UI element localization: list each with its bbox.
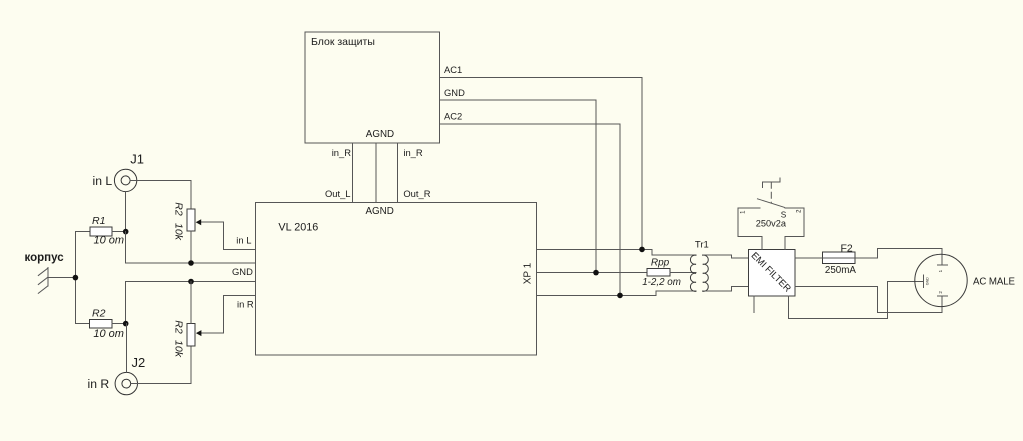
svg-text:J1: J1 <box>130 151 144 166</box>
svg-text:in L: in L <box>93 174 113 188</box>
wire secondary top to EMI <box>703 255 749 258</box>
svg-text:F2: F2 <box>841 242 853 254</box>
AC MALE left pin bar <box>922 275 924 288</box>
svg-text:AC2: AC2 <box>444 111 462 122</box>
switch lever (dashed) <box>757 199 784 208</box>
switch actuator bracket <box>762 178 780 188</box>
potentiometer R2 10k (upper) <box>187 209 195 263</box>
svg-text:GND: GND <box>926 277 930 285</box>
svg-text:2: 2 <box>797 209 803 213</box>
svg-text:1: 1 <box>741 210 747 214</box>
svg-text:10k: 10k <box>173 340 185 358</box>
wire chassis to node <box>48 277 76 279</box>
AC MALE top pin bar <box>937 264 947 266</box>
svg-text:AGND: AGND <box>366 129 394 140</box>
svg-text:250v2a: 250v2a <box>756 218 787 228</box>
wire S pin2 to EMI top <box>784 236 786 249</box>
svg-text:R1: R1 <box>92 215 105 227</box>
wire EMI bottom stub <box>753 296 755 313</box>
switch S box <box>738 208 804 237</box>
wire GND line A (upper) <box>126 232 256 263</box>
svg-text:XP 1: XP 1 <box>523 262 534 284</box>
svg-text:R2: R2 <box>92 307 106 319</box>
EMI FILTER box <box>749 249 795 295</box>
junction R2/J2 node <box>123 321 129 327</box>
svg-text:1: 1 <box>938 269 943 272</box>
svg-text:in_R: in_R <box>332 147 352 158</box>
connector J1 (in L jack) <box>114 169 136 191</box>
potentiometer R2 10k (lower) <box>187 282 195 347</box>
wire F2 to AC MALE top pin <box>855 249 942 265</box>
svg-text:Rpp: Rpp <box>651 258 670 269</box>
connector AC MALE <box>915 254 967 306</box>
svg-text:in R: in R <box>88 377 110 391</box>
wire pot2 wiper to VL in R pin <box>224 295 256 333</box>
wire J2 shield up to R2 node <box>125 324 127 373</box>
resistor R2 <box>75 319 125 328</box>
svg-text:R2: R2 <box>173 202 185 216</box>
svg-text:10 om: 10 om <box>94 234 125 246</box>
wire block pin AGND <box>375 143 377 203</box>
wire GND line B (lower) <box>126 282 256 324</box>
svg-text:GND: GND <box>444 87 465 98</box>
wire GND (protection to XP) <box>440 100 597 273</box>
wiper arrow lower pot <box>196 330 224 336</box>
svg-text:in L: in L <box>236 235 251 246</box>
svg-text:Tr1: Tr1 <box>695 239 709 250</box>
connector J2 (in R jack) <box>115 372 137 394</box>
chassis ground symbol (корпус) <box>38 268 48 294</box>
transformer Tr1 secondary winding <box>703 255 709 291</box>
svg-text:1-2,2 om: 1-2,2 om <box>642 277 681 288</box>
wire J1 center pin to pot R2 top <box>130 180 191 209</box>
wire S pin1 to EMI top <box>761 236 763 249</box>
wire J2 center pin to pot2 bottom <box>131 346 191 383</box>
fuse F2 <box>822 252 855 264</box>
svg-text:Out_R: Out_R <box>403 188 430 199</box>
wire J1 shield down to R1 node <box>125 192 127 232</box>
svg-text:in R: in R <box>237 299 254 310</box>
svg-text:in_R: in_R <box>403 147 423 158</box>
wire AC1 <box>440 77 643 249</box>
wire XP pin1 to transformer top <box>537 249 697 255</box>
svg-text:Блок защиты: Блок защиты <box>311 36 375 48</box>
svg-text:10 om: 10 om <box>93 328 124 340</box>
junction AC2 node <box>617 293 623 299</box>
wire secondary bottom to EMI <box>703 286 749 291</box>
svg-text:VL 2016: VL 2016 <box>278 221 318 233</box>
svg-text:AC MALE: AC MALE <box>973 276 1016 287</box>
svg-text:Out_L: Out_L <box>325 188 351 199</box>
svg-text:корпус: корпус <box>25 252 65 264</box>
wire AC2 <box>440 124 621 296</box>
wire vertical R1-R2 left bus <box>74 232 76 324</box>
wire pot1 wiper to VL in L pin <box>224 222 256 250</box>
wire block pin Out_L <box>351 143 353 203</box>
svg-text:250mA: 250mA <box>825 265 857 276</box>
wire EMI to fuse F2 <box>795 257 823 259</box>
resistor R1 <box>75 227 125 236</box>
block Блок защиты <box>305 32 440 143</box>
junction AC1 node <box>639 247 645 253</box>
wire XP pin3 to transformer bottom <box>537 291 697 295</box>
wire EMI right bottom to AC MALE bottom pin <box>795 286 942 312</box>
switch actuator link (dashed) <box>770 182 772 203</box>
junction chassis node <box>73 275 79 281</box>
junction pot2 top on line B <box>188 279 194 285</box>
resistor Rpp <box>647 269 696 276</box>
junction GND node <box>593 270 599 276</box>
transformer Tr1 primary winding <box>690 255 696 291</box>
wiper arrow upper pot <box>196 219 224 225</box>
svg-text:AGND: AGND <box>366 206 394 217</box>
IC block VL 2016 <box>255 203 536 356</box>
AC MALE bottom pin bar <box>937 295 947 297</box>
svg-text:GND: GND <box>232 266 253 277</box>
svg-text:2: 2 <box>938 291 943 294</box>
wire block pin Out_R <box>397 143 399 203</box>
svg-text:J2: J2 <box>132 355 146 370</box>
svg-text:R2: R2 <box>173 320 185 334</box>
wire EMI bottom to AC MALE left pin <box>788 281 923 318</box>
wire XP pin2 to Rpp <box>537 272 648 274</box>
junction R1/J1 node <box>123 229 129 235</box>
junction pot1 bottom on line A <box>188 260 194 266</box>
svg-text:10k: 10k <box>173 223 185 241</box>
svg-text:AC1: AC1 <box>444 64 462 75</box>
